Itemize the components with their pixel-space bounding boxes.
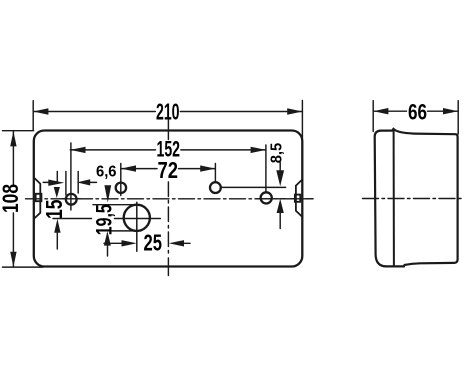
centerline solid bridge at right hole	[257, 198, 285, 200]
big hole horizontal centerline left segment	[53, 218, 92, 220]
dimension 25 line left	[104, 242, 125, 244]
svg-text:15: 15	[41, 199, 67, 219]
dimension 66 line	[373, 110, 458, 112]
dimension 6.6 arrow left	[48, 180, 64, 186]
big hole horizontal centerline right segment	[115, 218, 161, 220]
dimension 25 arrow right	[169, 240, 184, 246]
svg-text:8,5: 8,5	[269, 143, 286, 164]
dimension 152 line	[70, 149, 265, 151]
left mounting tab	[34, 178, 41, 219]
svg-text:72: 72	[158, 157, 179, 183]
svg-text:66: 66	[408, 99, 427, 124]
vertical centerline tick crossing bottom edge	[167, 258, 169, 276]
dimension 72 line	[121, 168, 216, 170]
dimension 6.6 line right tail	[88, 181, 97, 183]
svg-text:108: 108	[0, 184, 23, 213]
svg-text:25: 25	[144, 229, 163, 255]
side view lens/housing separation line	[393, 129, 395, 266]
dimension 19.5 arrow bottom (points up)	[107, 245, 109, 256]
dimension 210 extension left	[32, 101, 34, 131]
dimension 152 extension left	[70, 143, 72, 210]
dimension 210 arrow left	[33, 108, 48, 114]
vertical centerline	[167, 182, 169, 254]
svg-text:19,5: 19,5	[91, 204, 116, 235]
dimension 210 extension right	[301, 101, 303, 139]
dimension 108 line	[12, 131, 14, 267]
side view centerline	[363, 198, 465, 200]
dimension 6.6 arrow right	[77, 179, 90, 185]
line through upper holes extended right	[221, 186, 286, 188]
hole upper-left	[116, 183, 126, 193]
dimension 108 arrow top	[10, 131, 16, 146]
svg-text:6,6: 6,6	[96, 164, 117, 181]
big hole vertical centerline	[136, 202, 138, 251]
big hole bottom tangent line	[112, 230, 141, 232]
dimension 108 extension top	[3, 130, 34, 132]
dimension 72 arrow left	[121, 165, 136, 171]
dimension 15 arrow bottom (points up to hole line)	[56, 233, 58, 249]
dimension 66 extension right	[457, 101, 459, 134]
right mounting tab	[296, 180, 302, 217]
dimension 108 arrow bottom	[10, 252, 16, 267]
dimension 15 arrow top (points down to centerline)	[54, 187, 60, 198]
hole 6.6 left	[66, 194, 77, 205]
svg-text:210: 210	[156, 99, 180, 125]
big hole 19.5	[124, 205, 150, 231]
dimension 152 arrow right	[251, 147, 266, 153]
dimension 108 extension bottom	[3, 266, 44, 268]
dimension 66 arrow left	[373, 108, 388, 114]
front view body outline	[34, 131, 303, 267]
dimension 210 arrow right	[287, 108, 302, 114]
left tab slot	[36, 194, 42, 201]
dimension 6.6 line left tail	[43, 181, 49, 183]
dimension 210 line	[33, 111, 302, 113]
right tab slot	[295, 195, 300, 202]
big hole top tangent line	[93, 204, 138, 206]
hole right	[261, 192, 272, 203]
dimension 25 arrow left	[122, 240, 137, 246]
dimension 66 extension left	[372, 101, 374, 132]
dimension 8.5 arrow bottom (points up)	[279, 212, 281, 229]
centerline solid bridge at hole 6.6	[62, 198, 80, 200]
dimension 19.5 arrow top (points down)	[104, 185, 111, 202]
dimension 6.6 extension line c	[77, 172, 79, 194]
dimension 72 arrow right	[200, 165, 215, 171]
dimension 72 extension left	[120, 164, 122, 196]
dimension 6.6 extension line a	[56, 172, 58, 183]
dimension 25 line right	[181, 242, 190, 244]
dimension 66 arrow right	[443, 108, 458, 114]
dimension 152 extension right	[265, 145, 267, 192]
horizontal centerline	[26, 198, 314, 200]
dimension 6.6 extension line b	[65, 172, 67, 196]
side view body outline	[375, 129, 458, 267]
dimension 152 arrow left	[70, 147, 85, 153]
dimension 72 extension right	[214, 164, 216, 182]
dimension 8.5 arrow top (points down)	[279, 163, 281, 172]
vertical centerline tick crossing top edge	[167, 120, 169, 140]
hole upper-right	[210, 182, 221, 193]
centerline solid bridge at right tab	[291, 198, 313, 200]
